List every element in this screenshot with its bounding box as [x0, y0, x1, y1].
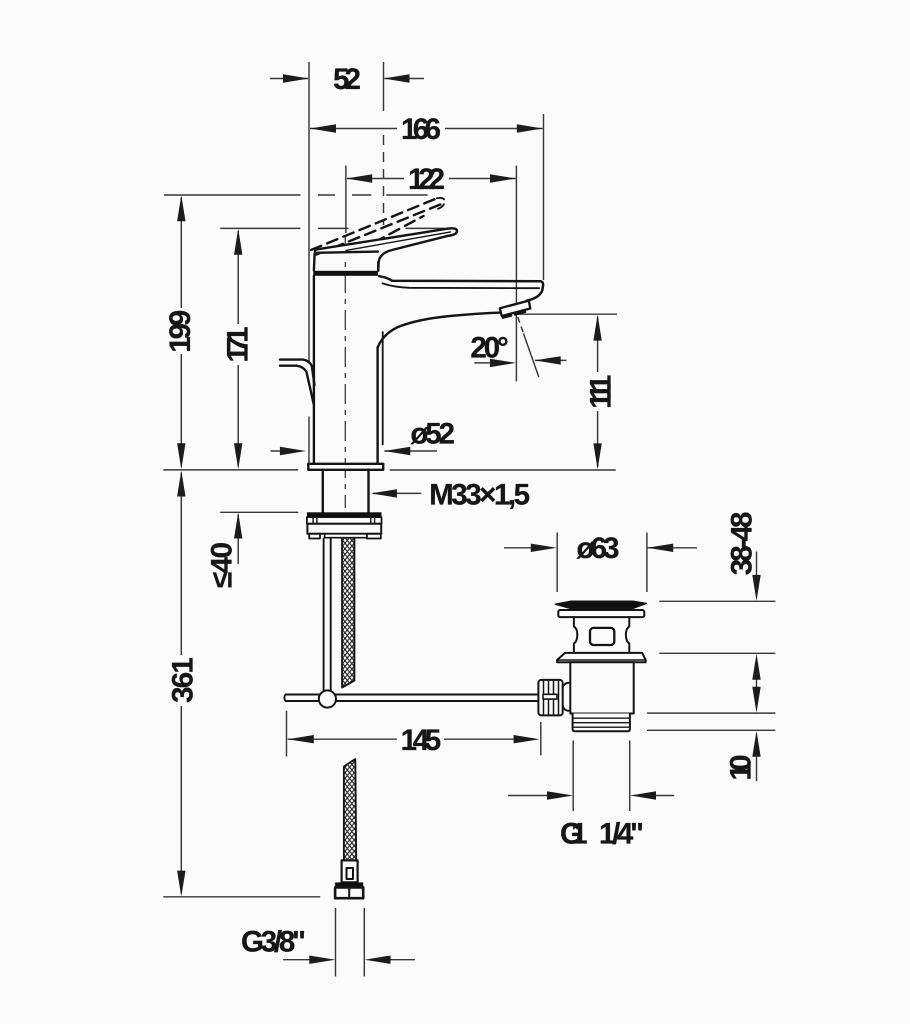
- dimension diameter 63 (drain flange): [504, 532, 697, 565]
- label G3/8 supply thread: [241, 908, 415, 977]
- svg-text:ø52: ø52: [410, 418, 455, 451]
- extension lines drain diameter: [557, 533, 647, 593]
- raised lever phantom pivot arc: [367, 240, 378, 246]
- rod ball joint: [319, 690, 336, 707]
- dimension 361 (overall height below deck): [167, 471, 200, 897]
- supply hose upper section: [342, 539, 354, 688]
- dimension 122 (centre to outlet): [346, 163, 516, 196]
- raised lever phantom (dashed): [311, 198, 442, 254]
- extension line at outlet / 20 deg reference (x=516.4): [515, 166, 517, 382]
- svg-text:166: 166: [401, 113, 441, 146]
- base plate: [308, 464, 383, 470]
- black joint ring: [313, 271, 378, 276]
- svg-text:≤40: ≤40: [206, 542, 239, 588]
- dimension 145 (rod to drain): [288, 724, 540, 757]
- svg-text:G1: G1: [560, 818, 588, 851]
- faucet body right edge: [376, 348, 378, 464]
- svg-text:20°: 20°: [470, 332, 508, 365]
- drain cap rim: [558, 610, 644, 617]
- bottom reference line (y=896.8): [163, 896, 320, 898]
- extension line rod end (x=286.5): [286, 711, 288, 757]
- svg-text:52: 52: [333, 63, 361, 96]
- dimension 199 (height to raised lever): [164, 195, 197, 469]
- svg-text:10: 10: [725, 755, 758, 781]
- drain body: [570, 662, 633, 713]
- dimension 10 (thread length): [725, 731, 761, 781]
- reference line lever rest level (y=228.4): [220, 227, 444, 229]
- faucet body outer right line: [382, 332, 384, 445]
- aerator outlet: [500, 301, 531, 318]
- deck reference lines (y=470): [163, 469, 616, 471]
- drain tail threads: [573, 714, 630, 732]
- spout top edge: [379, 276, 543, 300]
- lever cap: [314, 252, 378, 271]
- pop-up rod vertical: [324, 539, 331, 691]
- extension line drain lever (x=540.8): [540, 722, 542, 756]
- angle 20 deg leader arrows: [470, 332, 566, 368]
- rubber washer (black): [307, 512, 382, 517]
- mixer lever (rest position): [315, 228, 457, 270]
- drain pivot collar: [563, 683, 578, 711]
- dimension diameter 52 (base): [271, 418, 456, 456]
- svg-text:122: 122: [408, 163, 445, 196]
- dimension 52 (top width): [270, 63, 424, 96]
- clamping range inner arrows: [752, 654, 760, 713]
- extension line at spout tip (x=543.5): [543, 114, 545, 280]
- svg-text:38-48: 38-48: [726, 512, 759, 576]
- dimension 111 (outlet height): [585, 315, 618, 470]
- svg-text:1/4": 1/4": [599, 818, 644, 851]
- label G1 1/4 outlet thread: [508, 741, 674, 851]
- svg-text:G3/8": G3/8": [241, 926, 306, 959]
- reference line washer top (y=512.3): [220, 511, 298, 513]
- mounting nut: [307, 524, 381, 539]
- svg-text:171: 171: [222, 327, 255, 363]
- dashed extension line to raised lever (x=383.5): [383, 135, 385, 225]
- faucet body left edge: [313, 276, 315, 464]
- dimension 166 (spout reach overall): [310, 113, 543, 146]
- raised lever phantom tip arc: [434, 198, 445, 210]
- supply hose lower section: [344, 759, 356, 860]
- svg-text:111: 111: [585, 375, 618, 409]
- label M33x1,5 thread leader: [371, 478, 530, 511]
- 20 deg water-stream slant line: [518, 317, 539, 377]
- dimension 38-48 clamping range: [726, 512, 761, 601]
- hose end nut: [335, 882, 363, 898]
- drain lower flange: [557, 653, 646, 662]
- svg-text:145: 145: [401, 724, 442, 757]
- spout inner top line: [383, 283, 540, 288]
- svg-text:361: 361: [167, 657, 200, 703]
- threaded shank: [323, 470, 369, 513]
- drain neck left edge: [574, 617, 577, 653]
- reference lines right of drain: [647, 601, 775, 730]
- extension line right of faucet cap (x=383.5): [383, 62, 385, 111]
- drain neck window: [590, 628, 614, 645]
- pop-up rod horizontal: [284, 695, 537, 702]
- svg-text:ø63: ø63: [577, 532, 620, 565]
- extension line left of faucet body (x=309): [308, 62, 310, 464]
- reference line raised-lever top level (y=195): [164, 194, 428, 196]
- dimension 171 (height to lever): [222, 229, 255, 470]
- dimension max 40 mounting thickness: [206, 513, 243, 589]
- hose crimp sleeve: [342, 860, 358, 882]
- pull-rod knob at rear: [280, 360, 315, 405]
- svg-text:M33×1,5: M33×1,5: [429, 478, 530, 511]
- extension line above centreline (x=345.9): [345, 166, 347, 234]
- spout underside curve: [378, 313, 501, 348]
- drain neck right edge: [626, 617, 629, 653]
- drain knurled nut: [538, 680, 562, 716]
- reference line at outlet level (y=314.2): [517, 313, 617, 315]
- svg-text:199: 199: [164, 310, 197, 353]
- drain plug cap (black lens): [555, 601, 646, 608]
- support washer: [307, 517, 382, 524]
- centreline of faucet body: [344, 236, 346, 508]
